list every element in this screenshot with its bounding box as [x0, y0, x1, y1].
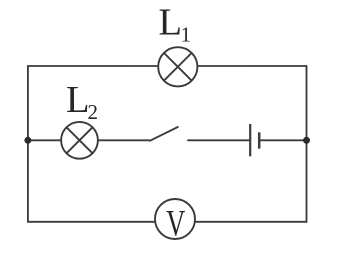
- wire middle branch: node A to lamp L2: [28, 139, 62, 141]
- node B (right junction dot): [303, 137, 310, 144]
- wire left vertical (x=28): [27, 66, 29, 222]
- switch S (open, lever up-right): [150, 127, 178, 141]
- node A (left junction dot): [24, 137, 31, 144]
- label L2: [66, 79, 98, 124]
- svg-text:L: L: [66, 79, 90, 121]
- svg-text:1: 1: [181, 23, 192, 47]
- label V (inside voltmeter): [166, 203, 185, 243]
- lamp L1 (circle with X, top branch): [158, 47, 197, 86]
- battery cell: long plate (positive): [249, 124, 251, 156]
- wire right vertical (x=306.5): [306, 66, 308, 222]
- label L1: [159, 2, 192, 47]
- wire middle branch: switch S to battery B: [188, 139, 250, 141]
- svg-text:2: 2: [88, 100, 99, 124]
- lamp L2 (circle with X, middle branch): [61, 122, 98, 159]
- wire middle branch: battery B to node B: [260, 139, 307, 141]
- voltmeter V (circle, bottom branch): [155, 199, 195, 239]
- svg-text:L: L: [159, 2, 183, 44]
- svg-text:V: V: [166, 203, 185, 243]
- wire middle branch: lamp L2 to switch S pivot: [98, 139, 150, 141]
- battery cell: short plate (negative): [258, 132, 261, 148]
- wire bottom (y=221): [28, 221, 307, 223]
- wire top (y=66.5, x28-306.5): [28, 65, 307, 67]
